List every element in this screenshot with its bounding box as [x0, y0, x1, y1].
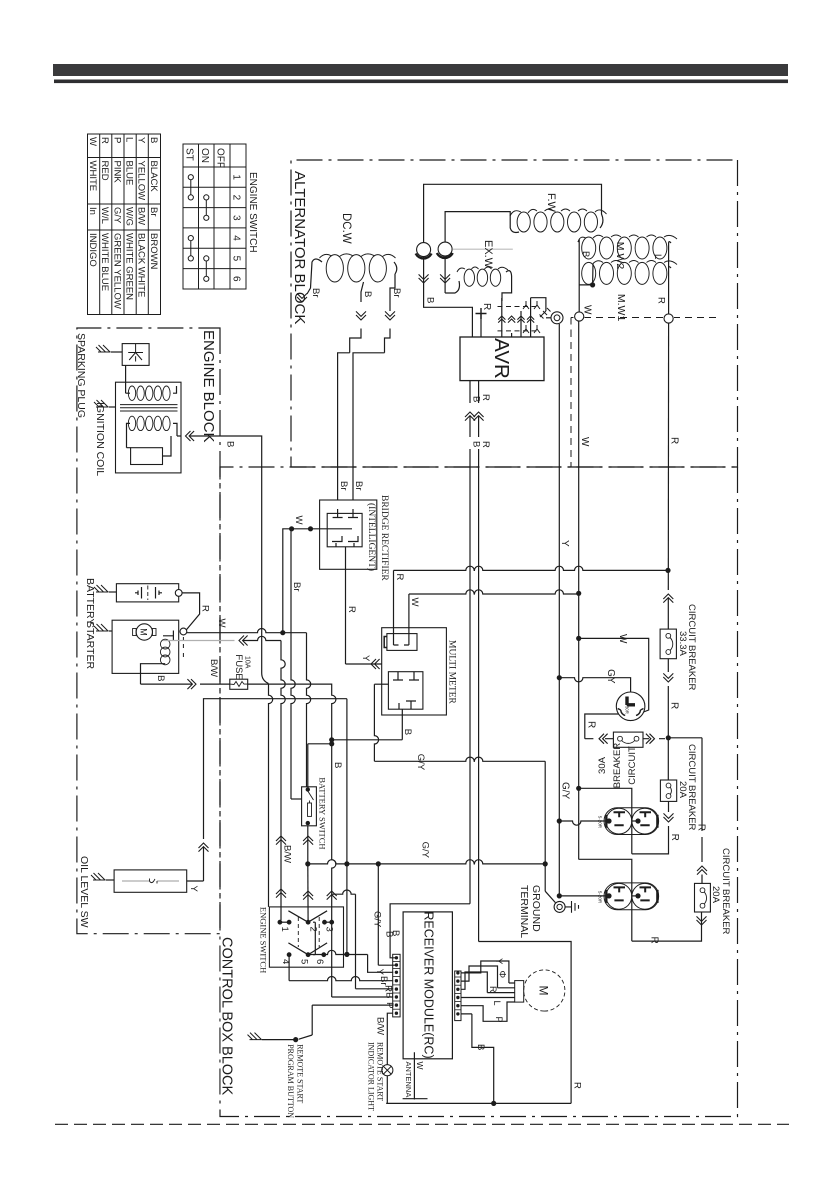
svg-text:R: R — [669, 702, 680, 709]
svg-text:B: B — [402, 729, 413, 735]
svg-text:R: R — [656, 297, 667, 304]
MULTI METER — [382, 628, 447, 715]
wire bottom bus — [386, 1102, 571, 1104]
connector dashed lines at AVR inputs — [496, 306, 537, 308]
svg-text:4: 4 — [231, 235, 242, 241]
wire plug to ground — [111, 351, 123, 353]
svg-text:GROUND: GROUND — [530, 885, 542, 932]
IGNITION COIL — [116, 382, 182, 473]
svg-text:1: 1 — [279, 927, 290, 932]
duplex receptacle 5-20R #2 — [604, 883, 659, 910]
wire B down to receiver pin1 — [390, 904, 470, 958]
ALTERNATOR BLOCK label — [293, 170, 311, 338]
AVR input wires with arrows — [501, 298, 503, 337]
wire button to ground — [262, 1039, 296, 1041]
ENGINE BLOCK label — [202, 329, 219, 447]
rotor shaft line — [452, 248, 513, 250]
svg-text:5-20R: 5-20R — [598, 816, 603, 829]
svg-text:R: R — [394, 574, 405, 581]
connector arrow — [697, 916, 707, 925]
multimeter W pin/wire — [404, 594, 409, 645]
wire brush2 to F.W bottom — [445, 212, 519, 243]
svg-text:SPARKING PLUG: SPARKING PLUG — [75, 333, 87, 418]
svg-text:ST: ST — [184, 148, 195, 161]
SPARKING PLUG — [122, 344, 149, 366]
switch linkage — [298, 917, 319, 947]
slip ring brush 1 — [417, 243, 431, 257]
junction — [308, 526, 313, 531]
wire G/Y to L5-30R — [559, 678, 630, 692]
bridge W output — [283, 529, 352, 633]
junction G/Y to L5-30R — [557, 675, 562, 680]
bridge R output — [345, 547, 347, 664]
svg-text:5: 5 — [299, 959, 310, 964]
motor connector — [515, 981, 524, 1003]
svg-text:Br: Br — [148, 207, 159, 217]
svg-text:ANTENNA: ANTENNA — [404, 1062, 413, 1098]
svg-text:B/W: B/W — [375, 1017, 386, 1035]
wire Br bridge W-line to battery switch — [291, 529, 295, 799]
junction B bus — [491, 1101, 496, 1106]
page header thin bar — [54, 80, 788, 84]
DC.W bottom lead Br (stub with connector) — [307, 259, 322, 294]
svg-text:ENGINE SWITCH: ENGINE SWITCH — [259, 907, 269, 973]
svg-text:W: W — [87, 137, 98, 146]
svg-text:Br: Br — [378, 976, 389, 986]
CIRCUIT BREAKER 30A — [613, 732, 643, 747]
wire Y to G/Y bus junction and Y row — [346, 699, 348, 864]
staircase wires pins 2-5 to motor connector — [461, 966, 515, 988]
terminal — [606, 818, 611, 823]
svg-text:Y: Y — [136, 137, 147, 144]
svg-text:B/W: B/W — [208, 659, 219, 677]
wire brush2 to EX.W bottom — [440, 274, 450, 283]
bridge pins — [333, 509, 358, 518]
svg-text:P: P — [111, 137, 122, 143]
wire R out of 20A — [668, 801, 670, 812]
wire R to receptacle 1 — [632, 826, 669, 854]
connector arrow B centre — [356, 311, 366, 320]
svg-text:L: L — [123, 137, 134, 142]
solenoid coil to B wire — [141, 664, 166, 684]
multimeter R pin/wire — [394, 570, 399, 645]
REMOTE START INDICATOR LIGHT lamp — [382, 1065, 393, 1076]
page header thick bar — [53, 64, 788, 76]
junction G/Y bus — [543, 861, 548, 866]
OIL LEVEL SW — [114, 870, 187, 892]
svg-text:R: R — [488, 986, 498, 993]
wire B from multimeter to B trunk — [332, 709, 403, 740]
wire W/R through receptacle 1 — [579, 788, 632, 854]
wire R after breaker — [667, 659, 669, 672]
junction — [289, 526, 294, 531]
svg-text:G/Y: G/Y — [415, 754, 426, 771]
DC.W winding — [369, 255, 386, 282]
ANTENNA — [403, 1052, 428, 1099]
svg-text:BROWN: BROWN — [148, 233, 159, 270]
svg-text:5-20R: 5-20R — [598, 891, 603, 904]
node W (output stud) — [575, 312, 584, 321]
wire B ignition coil to engine switch — [186, 431, 195, 441]
svg-text:5: 5 — [231, 256, 242, 262]
svg-text:Br: Br — [291, 582, 302, 592]
wire color code table — [88, 134, 161, 315]
junction G/Y to receptacle 1 — [557, 818, 562, 823]
wire oil switch to ground — [106, 879, 115, 881]
wire W to L5-30R — [579, 638, 649, 712]
svg-text:R: R — [346, 606, 357, 613]
svg-text:20A: 20A — [677, 781, 688, 799]
connector arrow B/W 2 — [276, 836, 286, 845]
wire P receiver pin7 to program button — [312, 1005, 393, 1035]
svg-text:G/Y: G/Y — [560, 782, 571, 800]
program button contact lever — [299, 1035, 312, 1039]
solenoid plunger/contact — [163, 631, 173, 642]
junction W multimeter — [576, 591, 581, 596]
terminal — [635, 893, 640, 898]
multimeter G/Y output pin — [374, 683, 388, 685]
svg-text:Y: Y — [188, 886, 199, 893]
svg-text:F.W: F.W — [545, 193, 557, 213]
svg-text:AVR: AVR — [490, 338, 513, 379]
junction on G/Y bus — [344, 861, 349, 866]
wire Br to bridge jog — [385, 329, 391, 353]
svg-text:(INTELLIGENT): (INTELLIGENT) — [366, 503, 377, 571]
svg-text:B: B — [155, 675, 166, 681]
BATTERY — [116, 584, 178, 602]
wire W to W trunk — [409, 590, 579, 594]
wire R stub to receiver pin 5 — [332, 890, 356, 894]
wire battery switch top jog to B trunk — [308, 744, 332, 787]
svg-text:R: R — [669, 834, 680, 841]
svg-text:B/W: B/W — [136, 207, 147, 225]
oil level switch ground — [91, 873, 105, 880]
terminal 3 — [322, 920, 327, 925]
ignition internal wiring — [126, 382, 181, 448]
svg-text:G/Y: G/Y — [111, 207, 122, 224]
M.W1 main winding 1 — [653, 262, 667, 284]
wire R from AVR — [478, 381, 480, 403]
svg-text:W: W — [293, 516, 304, 525]
svg-text:ENGINE SWITCH: ENGINE SWITCH — [247, 172, 258, 253]
RECEIVER MODULE(RC) — [403, 912, 452, 1059]
svg-text:TERMINAL: TERMINAL — [518, 885, 530, 938]
svg-text:P: P — [494, 1017, 504, 1023]
wire plug to ignition coil — [125, 365, 127, 382]
svg-text:RECEIVER MODULE(RC): RECEIVER MODULE(RC) — [422, 911, 436, 1058]
wire R from 20A #2 to R trunk — [701, 875, 703, 884]
svg-text:Y: Y — [360, 655, 371, 662]
svg-text:R: R — [586, 721, 597, 728]
wire R long run — [478, 449, 480, 942]
svg-text:B: B — [225, 441, 236, 447]
svg-text:Y: Y — [493, 958, 504, 965]
wire T2 to junction — [307, 864, 309, 922]
battery ground — [94, 585, 108, 592]
junction button — [293, 1037, 298, 1042]
terminal 4 — [287, 952, 292, 957]
BATTERY SWITCH — [302, 787, 317, 826]
battery switch contact 1 — [306, 787, 310, 791]
terminal 1 — [278, 920, 283, 925]
svg-text:WHITE GREEN: WHITE GREEN — [123, 233, 134, 300]
ignition primary winding — [163, 416, 170, 430]
wire G/Y diagonal into ground terminal — [545, 891, 555, 902]
wire G/Y(ground) to receptacle 2 — [559, 895, 608, 897]
svg-text:W: W — [617, 634, 628, 644]
wire L/R ends of main windings to node R — [669, 242, 671, 314]
wire R to bottom bus — [479, 942, 571, 1104]
STARTER box — [112, 620, 179, 673]
pin5 P loop to motor connector — [461, 1002, 515, 1021]
wire starter to ground — [109, 630, 113, 632]
junction R — [665, 568, 670, 573]
svg-text:B: B — [471, 441, 482, 447]
ALTERNATOR BLOCK border — [291, 160, 738, 467]
junction G/Y to receptacle 2 — [557, 893, 562, 898]
svg-text:Br: Br — [391, 288, 402, 298]
receiver lower pin strip — [393, 954, 400, 1017]
svg-text:B: B — [148, 137, 159, 143]
wire lamp to bus — [386, 1076, 387, 1104]
wire W trunk — [578, 321, 580, 859]
wire B/W receiver pin8 to indicator light — [387, 1013, 392, 1064]
svg-text:2: 2 — [308, 927, 319, 932]
DC.W top lead Br — [390, 262, 397, 302]
transformer core — [120, 405, 178, 411]
svg-text:M: M — [139, 628, 149, 636]
svg-text:W: W — [216, 619, 227, 628]
wire R battery to starter switch contact — [182, 593, 200, 630]
svg-text:BREAKER: BREAKER — [612, 743, 623, 789]
solenoid winding — [160, 639, 170, 649]
remote button ground — [248, 1033, 262, 1040]
rotor feed connector (hatched) — [540, 308, 551, 319]
svg-text:R: R — [669, 437, 680, 444]
svg-text:OFF: OFF — [215, 148, 226, 168]
slip ring brush 2 — [438, 242, 452, 256]
svg-text:R: R — [481, 303, 492, 310]
svg-text:L: L — [492, 1001, 502, 1006]
wire Br from DC.W top — [389, 302, 391, 311]
wire W/R through receptacle 2 — [631, 883, 633, 941]
wire G/Y from multimeter — [374, 684, 378, 761]
ignition coil ground — [94, 400, 108, 407]
svg-text:2: 2 — [231, 195, 242, 201]
wire B/W solenoid to engine switch T1 (gray section) — [163, 640, 235, 642]
junction W to receptacle 1 — [576, 786, 581, 791]
svg-text:DC.W: DC.W — [340, 213, 352, 244]
svg-text:BLACK: BLACK — [148, 161, 159, 193]
wire G/Y to receptacle 1 — [559, 821, 608, 825]
junction on Y row — [344, 952, 349, 957]
connector arrow Br top — [385, 311, 395, 320]
junction G/Y bus / T2 — [305, 861, 310, 866]
svg-text:REMOTE START: REMOTE START — [376, 1042, 385, 1101]
CIRCUIT BREAKER 33.3A — [660, 629, 676, 659]
svg-text:WHITE: WHITE — [87, 161, 98, 192]
wire Br to bridge rectifier 1 — [353, 353, 385, 500]
wire battery to ground — [109, 591, 117, 593]
motor M — [524, 970, 565, 1011]
multimeter upper connector — [387, 634, 417, 651]
svg-text:INDIGO: INDIGO — [87, 233, 98, 267]
condenser — [131, 448, 163, 465]
wire Y down to pin3 — [368, 955, 394, 973]
node R (output stud) — [664, 314, 673, 323]
svg-text:3: 3 — [231, 215, 242, 221]
svg-text:R: R — [696, 824, 707, 831]
ENGINE BLOCK border — [77, 328, 220, 934]
svg-text:B: B — [580, 251, 591, 257]
svg-text:ALTERNATOR BLOCK: ALTERNATOR BLOCK — [291, 171, 308, 324]
battery + terminal — [175, 590, 182, 597]
terminal to slip rings — [551, 312, 563, 324]
svg-text:BRIDGE RECTIFIER: BRIDGE RECTIFIER — [379, 495, 389, 581]
rotor/stator dashed partition — [571, 318, 716, 331]
duplex receptacle 5-20R #1 — [604, 808, 659, 835]
svg-text:B: B — [471, 396, 482, 402]
svg-text:Y: Y — [559, 540, 570, 547]
junction M.W1 tap — [590, 282, 595, 287]
svg-text:G/Y: G/Y — [372, 911, 383, 928]
svg-text:B: B — [475, 1044, 486, 1050]
ignition secondary winding — [163, 386, 170, 400]
switch table ST links — [188, 175, 193, 180]
svg-text:MULTI METER: MULTI METER — [447, 640, 457, 704]
M.W2 main winding 2 — [653, 237, 667, 259]
wire B/W starter through fuse to B trunk corner — [141, 683, 193, 685]
svg-text:G/Y: G/Y — [420, 842, 431, 859]
svg-text:REMOTE START: REMOTE START — [296, 1044, 305, 1103]
wire B centre jog — [350, 329, 361, 353]
svg-text:B: B — [362, 291, 373, 297]
svg-text:RED: RED — [99, 161, 110, 181]
svg-text:R: R — [480, 394, 491, 401]
wire B trunk to receiver pin 6 — [332, 922, 394, 997]
wire coil to ground — [109, 406, 116, 408]
connector arrow R — [663, 594, 673, 603]
sparking plug ground — [96, 345, 110, 352]
wire B long run — [469, 449, 471, 904]
wire B brush1 to AVR — [419, 274, 429, 283]
starter motor M — [136, 624, 152, 640]
svg-text:GREEN YELLOW: GREEN YELLOW — [111, 233, 122, 309]
svg-text:INDICATOR LIGHT: INDICATOR LIGHT — [367, 1042, 376, 1111]
svg-text:W: W — [579, 437, 590, 447]
CIRCUIT BREAKER 20A #2 — [695, 883, 711, 912]
starter ground — [94, 624, 108, 631]
switch table ON links — [204, 195, 209, 200]
svg-text:33.3A: 33.3A — [677, 631, 688, 656]
terminal 5 — [306, 952, 311, 957]
svg-text:6: 6 — [314, 959, 325, 964]
svg-text:30A: 30A — [597, 756, 608, 774]
svg-text:20A: 20A — [710, 886, 721, 904]
switch linkage dashed — [182, 637, 184, 658]
wire W to receptacle 2 column — [579, 859, 632, 883]
svg-text:BLUE: BLUE — [123, 161, 134, 186]
junction B trunk / battery switch — [329, 741, 334, 746]
wire EX.W top to AVR — [502, 271, 512, 301]
svg-text:In: In — [87, 207, 98, 215]
wire G/Y bus — [308, 860, 545, 864]
svg-text:M: M — [537, 986, 551, 996]
svg-text:EX.W: EX.W — [482, 240, 494, 269]
terminal tap — [632, 895, 638, 897]
wire Y bridge R to multimeter — [346, 663, 382, 665]
BRIDGE RECTIFIER (INTELLIGENT) — [320, 500, 377, 569]
svg-text:B: B — [332, 762, 343, 768]
DC.W centre tap B — [361, 282, 364, 302]
CIRCUIT BREAKER 20A #1 — [660, 780, 676, 801]
svg-text:L5-30R: L5-30R — [625, 700, 630, 714]
AVR (automatic voltage regulator) — [460, 337, 544, 381]
wire R riser to 20A #2 — [632, 912, 702, 941]
svg-text:IGNITION COIL: IGNITION COIL — [94, 402, 106, 476]
multimeter lower connector — [388, 672, 423, 710]
connector arrow B/W — [276, 889, 286, 898]
svg-text:R: R — [649, 937, 660, 944]
svg-text:R: R — [480, 441, 491, 448]
svg-text:STARTER: STARTER — [84, 621, 96, 669]
junction W to L5-30R — [576, 636, 581, 641]
svg-text:YELLOW: YELLOW — [136, 161, 147, 201]
wire Br T4 to receiver pin 4 — [288, 955, 290, 981]
terminal tap — [632, 820, 638, 822]
wire Y from AVR to rotor terminal — [531, 298, 546, 311]
CIRCUIT BREAKER 30A label (rotated 180) — [597, 743, 638, 789]
switch wipers — [288, 911, 327, 922]
svg-text:Φ: Φ — [497, 971, 508, 979]
junction B trunk — [329, 737, 334, 742]
svg-text:GY: GY — [605, 669, 616, 684]
svg-text:WHITE BLUE: WHITE BLUE — [99, 233, 110, 291]
FUSE 10A — [230, 679, 248, 689]
svg-text:ON: ON — [199, 148, 210, 163]
svg-text:W: W — [415, 1062, 425, 1070]
svg-text:W/L: W/L — [99, 207, 110, 224]
svg-text:ENGINE BLOCK: ENGINE BLOCK — [200, 330, 217, 443]
wire Y/G-Y trunk from rotor terminal to ground terminal — [558, 324, 560, 896]
svg-text:10A: 10A — [244, 656, 251, 669]
wire G/Y to receiver pin 2 — [378, 864, 395, 965]
CONTROL BOX BLOCK border — [220, 467, 738, 1117]
svg-text:FUSE: FUSE — [233, 654, 244, 679]
ground terminal stud — [554, 901, 565, 912]
EX.W winding — [490, 269, 500, 286]
battery switch contact 2 — [306, 821, 310, 825]
wire R to R trunk — [394, 566, 669, 570]
pin6 B wire down to bus — [461, 1014, 494, 1104]
svg-text:Br: Br — [353, 481, 364, 491]
svg-text:BATTERY SWITCH: BATTERY SWITCH — [318, 777, 328, 849]
wire to Y row — [346, 864, 348, 955]
F.W winding — [584, 212, 597, 232]
L5-30R receptacle — [616, 692, 645, 721]
AVR R+ terminal stub — [480, 314, 482, 338]
wire Br into battery switch — [291, 798, 302, 800]
wire W battery switch to G/Y bus corner — [307, 826, 309, 864]
wire Br to bridge rectifier 2 — [338, 353, 350, 500]
svg-text:R: R — [383, 985, 394, 992]
wire Y T5/T6 to receiver pin 3 — [307, 950, 368, 954]
terminal 2 — [306, 920, 311, 925]
wire Y oil level switch to engine switch row — [187, 848, 204, 882]
svg-text:BLACK WHITE: BLACK WHITE — [136, 233, 147, 297]
svg-text:PROGRAM BUTTON: PROGRAM BUTTON — [286, 1044, 295, 1118]
wire B trunk — [332, 740, 336, 922]
